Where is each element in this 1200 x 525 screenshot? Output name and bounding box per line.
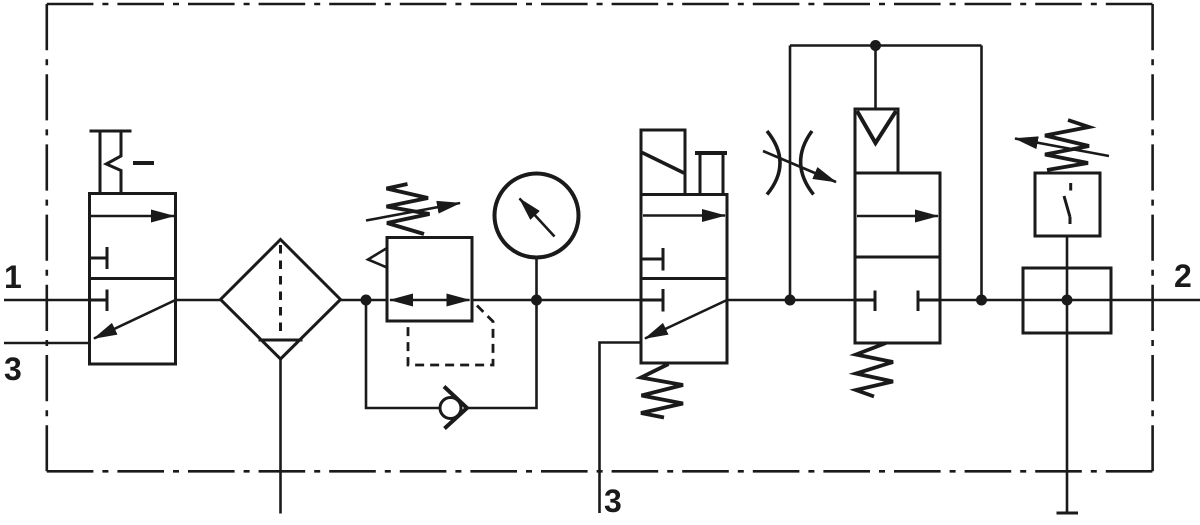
valve V1 manual actuator with detent [90, 131, 132, 194]
valve V2 solenoid [641, 130, 685, 195]
node junction dot in pickup box [1062, 295, 1073, 306]
wire V2 to V3 [727, 299, 855, 302]
wire valve V2 exhaust to port 3 [600, 343, 642, 514]
regulator R1 adjustment arrow [366, 203, 460, 221]
wire port 3 line left [4, 342, 90, 345]
wire through pickup box horizontal [1023, 299, 1111, 302]
valve V3 bottom-box blocked port left [855, 291, 875, 312]
gauge G1 needle [520, 199, 555, 237]
valve V2 bottom-box blocked port [641, 289, 663, 312]
wire bypass branch down right [980, 46, 983, 301]
filter F1 dashed center line [279, 245, 282, 336]
valve V3 body (2/2-way pilot valve) [855, 173, 940, 343]
valve V1 detent dash [133, 161, 154, 165]
throttle FC1 adjustment arrow [763, 151, 836, 182]
wire pilot stem [874, 46, 877, 110]
svg-text:1: 1 [4, 259, 22, 295]
wire gauge stem [535, 258, 538, 301]
valve V1 top-box blocked port [90, 247, 108, 269]
wire filter drain [279, 359, 282, 514]
wire filter to regulator [341, 299, 388, 302]
pressure switch PS1 contact [1064, 183, 1071, 224]
svg-text:3: 3 [604, 483, 622, 519]
pressure switch PS1 spring [1045, 120, 1089, 170]
gauge G1 circle [495, 174, 579, 258]
valve V1 bottom-box blocked port [90, 290, 108, 312]
wire vent end bar [1057, 512, 1079, 515]
node junction dot after V2 [785, 295, 796, 306]
valve V3 top-box flow arrow [857, 215, 938, 218]
valve V2 top-box blocked port [641, 248, 663, 271]
valve V2 pilot pillar [695, 153, 727, 195]
valve V2 top-box flow arrow [643, 214, 725, 217]
wire bypass top line [790, 44, 982, 47]
valve V2 bottom-box diagonal arrow [645, 300, 727, 339]
valve V3 pilot tower with check [855, 109, 898, 173]
valve V1 top-box flow arrow [91, 215, 174, 218]
node junction dot right of V3 [976, 295, 987, 306]
regulator R1 adjusting spring [387, 184, 430, 234]
filter F1 water-trap chord [259, 339, 303, 342]
valve V3 bottom-box blocked port right [918, 291, 940, 312]
check valve CV1 circle [440, 398, 461, 419]
valve V1 body (3/2-way hand valve) [90, 194, 176, 365]
svg-text:2: 2 [1174, 258, 1192, 294]
valve V3 return spring [856, 343, 893, 397]
valve V1 bottom-box diagonal arrow [94, 300, 176, 339]
wire port 2 line [1111, 299, 1200, 302]
wire pickup vertical [1066, 236, 1069, 513]
valve V2 body (3/2-way solenoid valve) [641, 195, 727, 364]
check valve CV1 seat [444, 387, 467, 429]
node junction dot top line [870, 40, 881, 51]
enclosure dash-dot border [47, 3, 1153, 6]
node junction dot left of regulator [361, 295, 372, 306]
throttle FC1 arcs [767, 131, 780, 195]
valve V2 return spring [641, 364, 683, 418]
regulator R1 relief triangle [368, 248, 387, 268]
wire bypass branch up [789, 46, 792, 301]
pressure switch PS1 switch box [1035, 173, 1100, 236]
node junction dot under gauge [531, 295, 542, 306]
pressure switch PS1 adjustment arrow [1015, 139, 1109, 157]
filter F1 diamond [221, 240, 341, 360]
wire regulator to valve V2 [472, 299, 641, 302]
regulator R1 flow line double arrow [390, 299, 470, 302]
regulator R1 pilot dashed line [408, 306, 493, 366]
wire V1 to filter [176, 299, 221, 302]
wire regulator relief branch [366, 300, 440, 408]
wire V3 to pressure switch [940, 299, 1023, 302]
svg-text:3: 3 [4, 351, 22, 387]
pressure switch PS1 pickup box [1023, 268, 1111, 333]
regulator R1 body [387, 238, 472, 322]
wire port 1 line [4, 299, 90, 302]
